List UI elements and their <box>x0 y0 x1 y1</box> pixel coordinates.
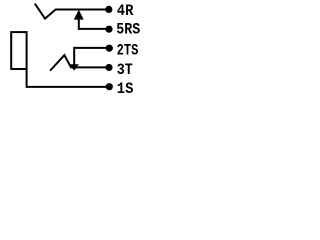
ring switch arrow <box>74 10 84 20</box>
svg-text:1S: 1S <box>117 80 134 98</box>
wire ring switch to pin 5RS <box>79 19 109 29</box>
svg-text:5RS: 5RS <box>116 21 140 39</box>
pin dot 4R <box>105 6 112 13</box>
svg-text:4R: 4R <box>117 2 134 20</box>
wire sleeve to pin 1S <box>27 69 109 87</box>
sleeve body rectangle <box>11 32 26 69</box>
pin dot 1S <box>106 83 113 90</box>
tip spring contact <box>51 55 109 70</box>
pin dot 3T <box>105 64 112 71</box>
wire tip switch to pin 2TS <box>74 48 109 64</box>
pin dot 2TS <box>106 45 113 52</box>
pin dot 5RS <box>105 26 112 33</box>
tip switch arrow <box>69 64 79 70</box>
svg-text:3T: 3T <box>117 61 133 79</box>
ring spring contact <box>35 4 108 18</box>
svg-text:2TS: 2TS <box>117 41 139 59</box>
